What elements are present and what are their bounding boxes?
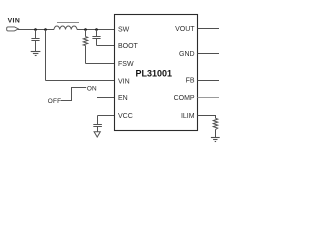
- wire to VIN pin: [46, 80, 115, 82]
- resistor R_ILIM: [213, 118, 217, 137]
- svg-text:FB: FB: [186, 78, 195, 85]
- switch wire OFF: [61, 88, 86, 101]
- svg-text:VIN: VIN: [8, 18, 21, 25]
- inductor L1 core bar: [57, 22, 79, 24]
- capacitor C_BOOT: [92, 30, 100, 46]
- svg-text:FSW: FSW: [118, 61, 134, 68]
- wire COMP pin: [198, 97, 220, 99]
- svg-text:COMP: COMP: [174, 95, 195, 102]
- connector tag VIN: [7, 27, 19, 31]
- wire to EN pin: [97, 97, 115, 99]
- inductor L1: [54, 26, 77, 29]
- node: snubber resistor junction: [84, 28, 87, 31]
- svg-text:OFF: OFF: [48, 98, 61, 105]
- ground (earth bars) under R_ILIM: [211, 138, 220, 142]
- svg-text:GND: GND: [179, 51, 195, 58]
- capacitor C_IN (to ground): [31, 30, 39, 52]
- wire to VCC pin: [98, 115, 115, 117]
- svg-text:PL31001: PL31001: [136, 68, 173, 78]
- svg-text:ON: ON: [87, 85, 97, 92]
- wire VIN tag to inductor: [18, 29, 54, 31]
- svg-text:EN: EN: [118, 95, 128, 102]
- svg-text:VCC: VCC: [118, 113, 133, 120]
- resistor R_FSW: [83, 30, 87, 64]
- svg-text:VIN: VIN: [118, 78, 130, 85]
- ground (earth bars) under C_IN: [31, 52, 41, 56]
- wire to BOOT pin: [97, 45, 115, 47]
- wire inductor to SW pin: [77, 29, 115, 31]
- node: input cap junction: [34, 28, 37, 31]
- wire ILIM pin: [198, 116, 216, 119]
- node: boot cap junction: [95, 28, 98, 31]
- op IC U1 PL31001 box: [115, 15, 198, 131]
- wire FB pin: [198, 80, 220, 82]
- wire GND pin: [198, 53, 220, 55]
- capacitor C_VCC: [93, 116, 102, 132]
- node: VIN branch junction: [44, 28, 47, 31]
- wire VOUT pin: [198, 28, 220, 30]
- svg-text:VOUT: VOUT: [175, 26, 195, 33]
- wire VIN branch down: [45, 30, 47, 81]
- ground (triangle) under C_VCC: [94, 132, 100, 137]
- svg-text:BOOT: BOOT: [118, 43, 139, 50]
- svg-text:ILIM: ILIM: [181, 113, 195, 120]
- wire to FSW pin: [86, 63, 115, 65]
- svg-text:SW: SW: [118, 26, 130, 33]
